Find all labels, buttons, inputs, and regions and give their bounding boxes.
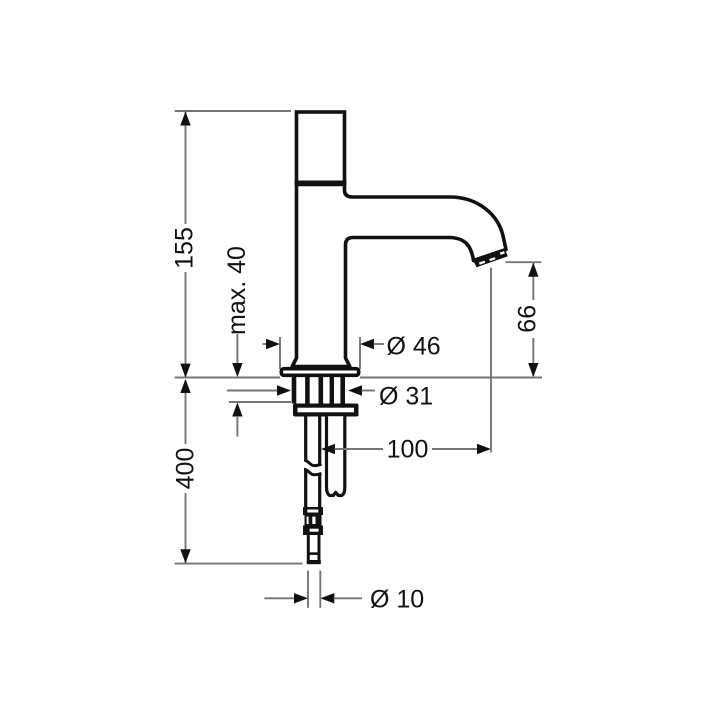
svg-text:100: 100 [387,436,429,464]
dimension 66 vertical at spout tip [506,262,542,377]
dimension Ø 46 [263,337,385,369]
dimension Ø 10 [264,571,362,608]
supply pipe upper segment [304,416,322,465]
supply pipe lower segment [306,470,320,508]
dimension line 400 vertical [180,379,190,563]
dimension line 155 vertical [180,112,190,378]
faucet body and spout outline [292,185,506,367]
svg-text:Ø 31: Ø 31 [379,383,433,411]
svg-text:Ø 46: Ø 46 [387,333,441,361]
threaded rib section [292,377,345,404]
pipe fitting collar [303,507,323,515]
extension line bottom (pipe end level) [175,563,303,565]
deck underside line [229,401,291,403]
escutcheon flange [281,369,358,376]
pipe fitting hatched band [305,515,322,526]
dimension max. 40 [232,334,242,437]
dimension 100 [321,268,491,454]
pipe end tube [307,535,321,564]
svg-text:400: 400 [172,448,200,490]
locknut washer [293,404,359,417]
pipe fitting dark band [303,526,323,536]
svg-text:155: 155 [171,227,199,269]
svg-text:max. 40: max. 40 [223,246,251,335]
deck line (mounting surface) [175,377,280,379]
outlet tube (cut off) [327,416,345,495]
svg-text:66: 66 [514,305,542,333]
dimension Ø 31 [227,385,375,395]
pipe break lower cut [304,469,322,474]
svg-text:Ø 10: Ø 10 [370,586,424,614]
aerator band at spout tip [473,249,508,267]
faucet handle [295,112,347,183]
extension line top (handle top level) [175,110,291,112]
